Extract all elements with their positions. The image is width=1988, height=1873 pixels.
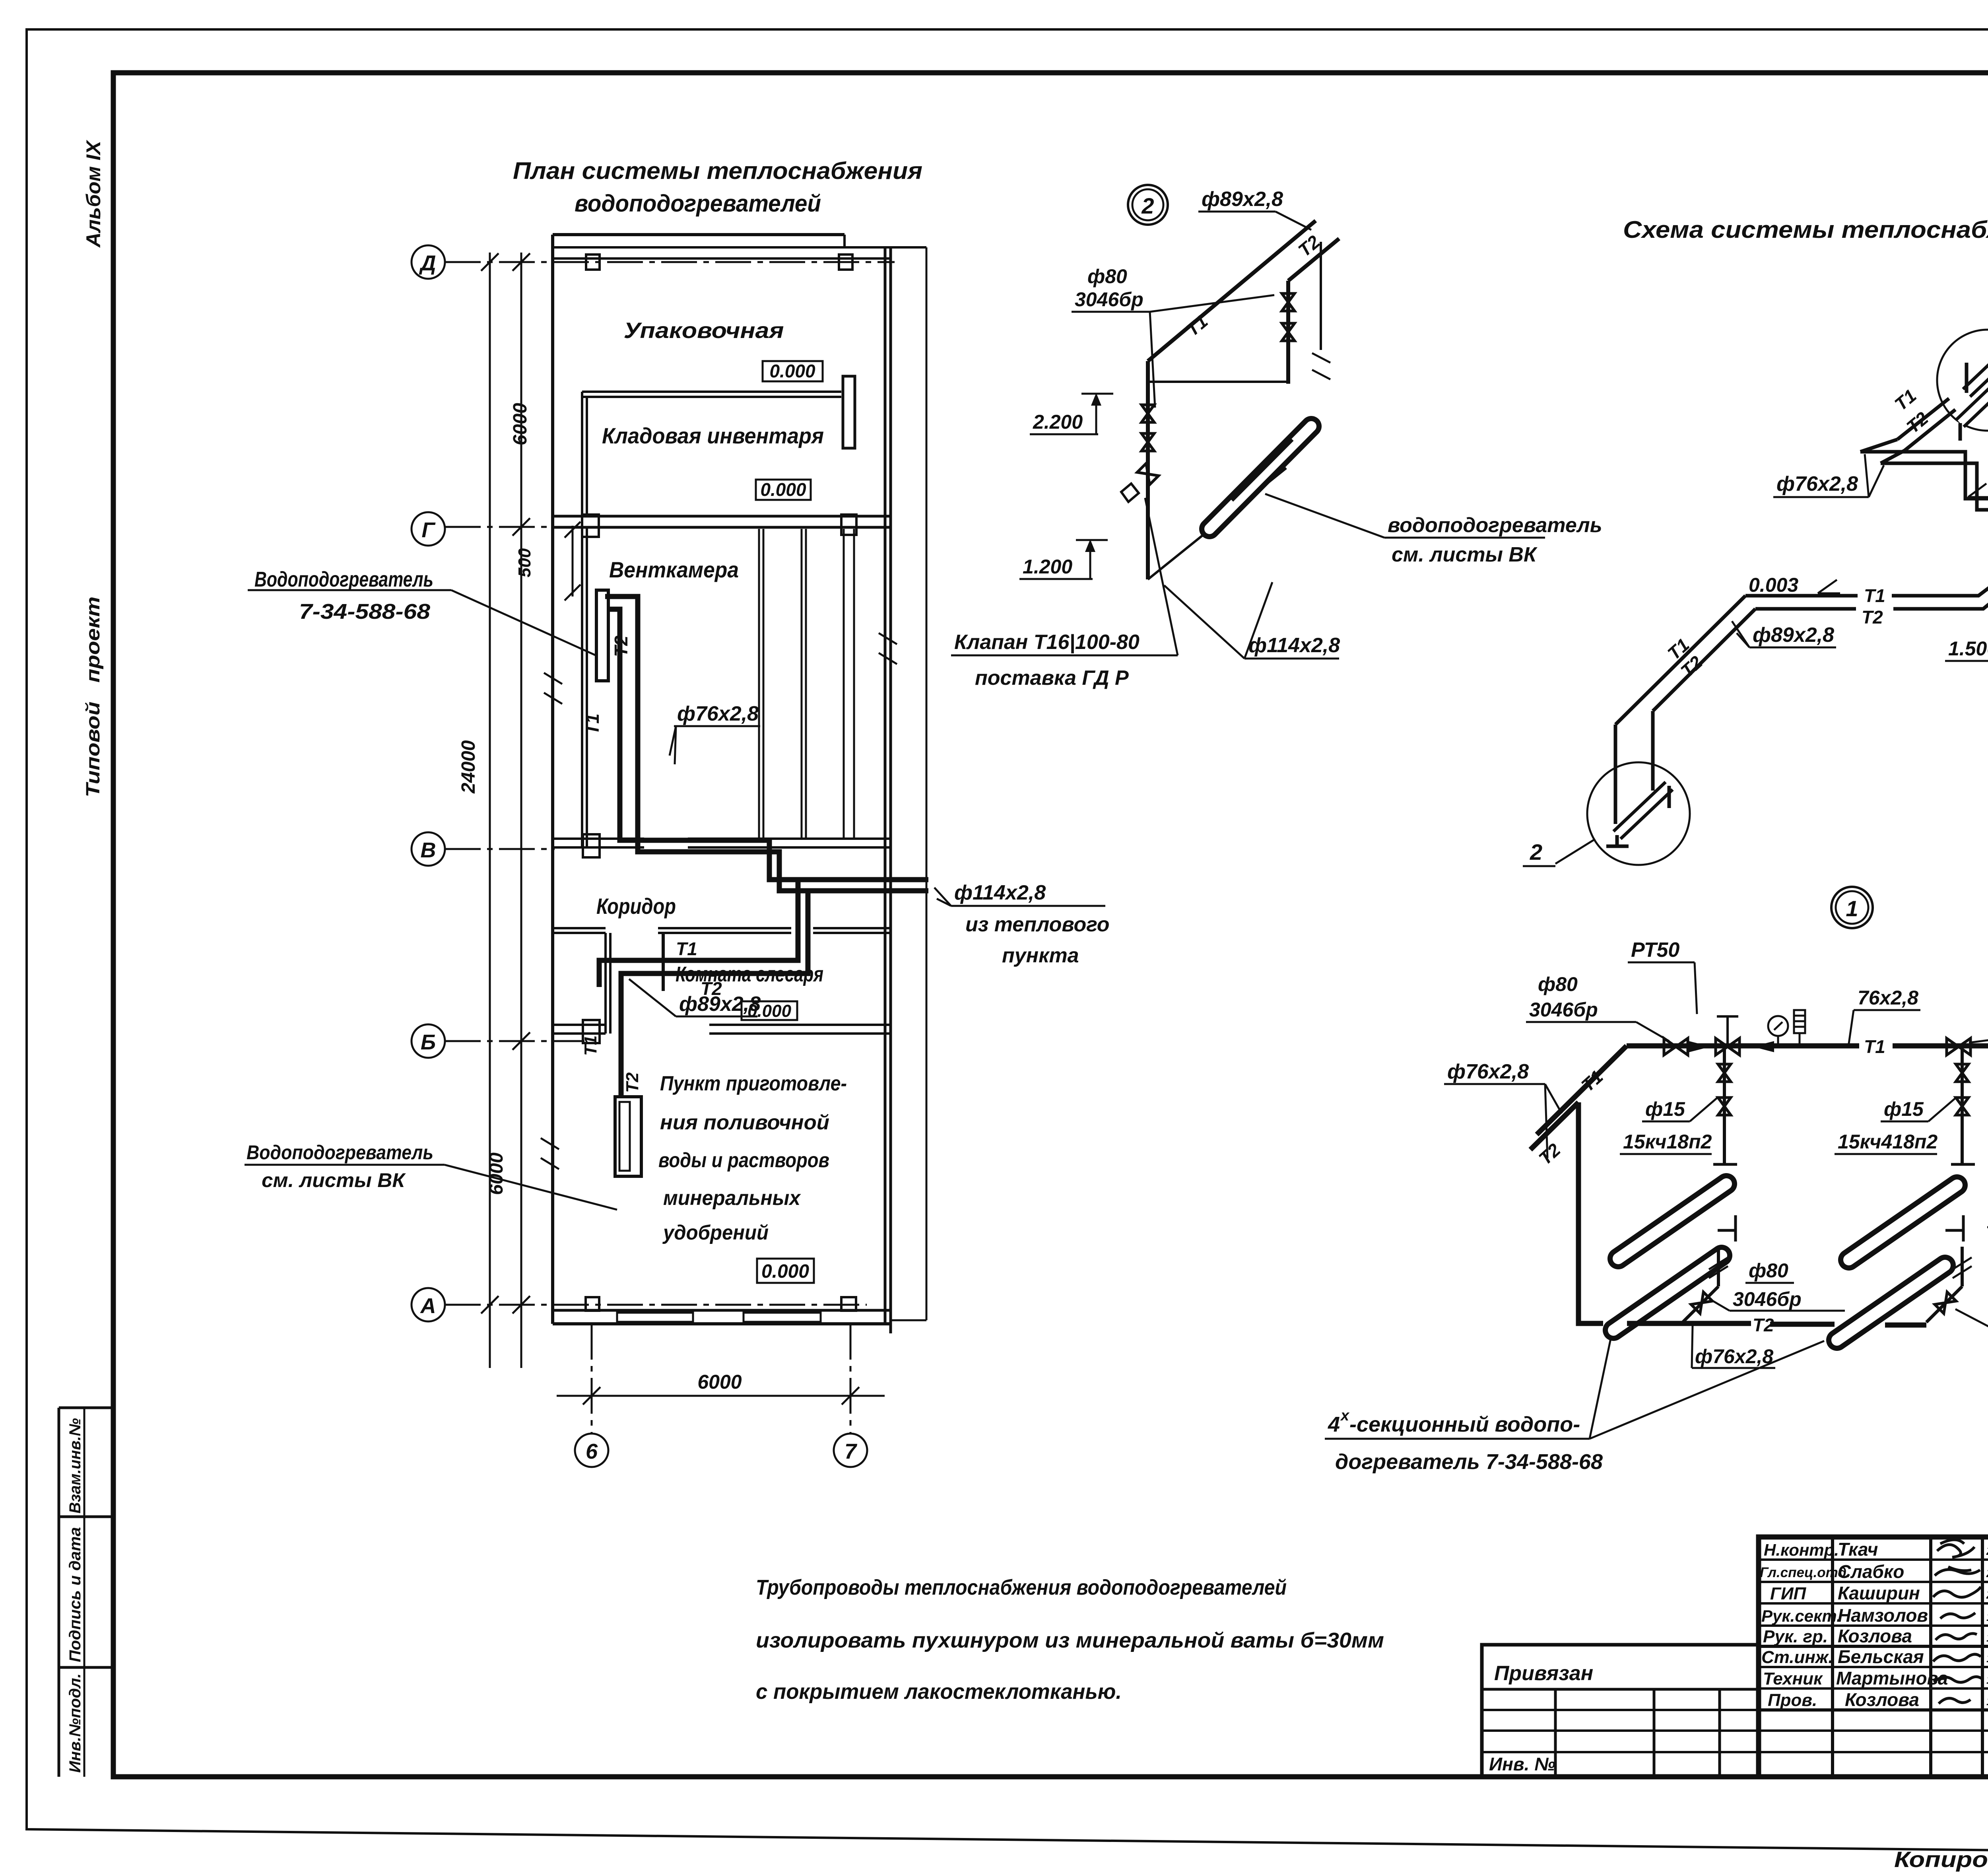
heater bottom edge bbox=[1148, 468, 1286, 579]
слесарь room left wall bbox=[604, 933, 607, 1034]
pipe T1 diagonal bbox=[1148, 221, 1316, 361]
svg-text:20.06.83: 20.06.83 bbox=[1986, 1588, 1988, 1601]
wall axis Г bbox=[553, 515, 891, 518]
svg-text:водоподогреватель: водоподогреватель bbox=[1388, 514, 1602, 537]
valves on T1 header bbox=[1664, 1038, 1688, 1055]
svg-text:ф76х2,8: ф76х2,8 bbox=[1447, 1060, 1529, 1083]
svg-text:Т2: Т2 bbox=[623, 1072, 642, 1093]
svg-text:0.000: 0.000 bbox=[760, 479, 806, 500]
svg-text:РТ50: РТ50 bbox=[1631, 938, 1679, 962]
svg-text:10.05.83: 10.05.83 bbox=[1986, 1652, 1988, 1665]
axis Г circle bbox=[412, 512, 445, 546]
svg-text:2.200: 2.200 bbox=[1033, 411, 1083, 433]
left outer wall bbox=[551, 235, 554, 1324]
svg-text:6000: 6000 bbox=[486, 1152, 507, 1195]
кладовая walls bbox=[582, 391, 841, 393]
bottom wall axis А bbox=[553, 1309, 891, 1312]
svg-text:Мартынова: Мартынова bbox=[1836, 1668, 1948, 1688]
svg-text:ф80: ф80 bbox=[1749, 1259, 1788, 1282]
T1 feed diagonal bbox=[1537, 1046, 1627, 1135]
heater right edge bbox=[1320, 242, 1322, 350]
svg-text:минеральных: минеральных bbox=[663, 1187, 801, 1210]
svg-text:догреватель 7-34-588-68: догреватель 7-34-588-68 bbox=[1335, 1450, 1603, 1474]
svg-text:Козлова: Козлова bbox=[1838, 1626, 1912, 1646]
verticals to compensator 2 bbox=[1614, 725, 1617, 824]
svg-text:15кч418п2: 15кч418п2 bbox=[1838, 1131, 1938, 1153]
svg-text:Привязан: Привязан bbox=[1494, 1662, 1593, 1685]
svg-text:76х2,8: 76х2,8 bbox=[1858, 987, 1918, 1009]
svg-text:А: А bbox=[420, 1294, 436, 1318]
svg-text:ф80: ф80 bbox=[1087, 265, 1127, 288]
svg-text:3046бр: 3046бр bbox=[1075, 288, 1143, 311]
svg-text:4: 4 bbox=[1328, 1413, 1340, 1436]
svg-text:6: 6 bbox=[586, 1440, 598, 1463]
riser T1 corridor bbox=[599, 880, 798, 987]
upper zigzag pair bbox=[1860, 452, 1988, 516]
svg-text:Ст.инж.: Ст.инж. bbox=[1761, 1648, 1833, 1667]
angle valve T16/100-80 with diamond handle bbox=[1137, 463, 1159, 485]
svg-text:Т2: Т2 bbox=[1753, 1315, 1774, 1335]
long T1/T2 horizontals bbox=[1745, 530, 1988, 596]
svg-text:ф114х2,8: ф114х2,8 bbox=[1248, 634, 1340, 657]
svg-text:Пункт приготовле-: Пункт приготовле- bbox=[660, 1072, 847, 1095]
pipe T2 diagonal + branch bbox=[1288, 239, 1339, 281]
T2 return diagonal + drop bbox=[1530, 1102, 1578, 1150]
svg-text:ф15: ф15 bbox=[1645, 1098, 1685, 1120]
svg-text:Копировал Попова: Копировал Попова bbox=[1894, 1847, 1988, 1872]
svg-text:20.06.8: 20.06.8 bbox=[1986, 1567, 1988, 1580]
svg-text:ф114х2,8: ф114х2,8 bbox=[954, 881, 1046, 904]
detail circle 1 bbox=[1831, 887, 1873, 928]
svg-text:Козлова: Козлова bbox=[1845, 1689, 1919, 1710]
T2 bottom header bbox=[1582, 1321, 1603, 1326]
svg-text:Коридор: Коридор bbox=[596, 894, 676, 919]
svg-text:ф89х2,8: ф89х2,8 bbox=[679, 993, 761, 1016]
svg-text:см. листы ВК: см. листы ВК bbox=[262, 1169, 406, 1191]
verticals of signature table bbox=[1831, 1537, 1834, 1777]
svg-text:Подпись и дата: Подпись и дата bbox=[66, 1527, 84, 1662]
svg-text:поставка ГД Р: поставка ГД Р bbox=[975, 666, 1129, 690]
axis А line bbox=[445, 1304, 867, 1306]
svg-text:Г: Г bbox=[421, 518, 436, 542]
right outer wall bbox=[884, 247, 887, 1324]
svg-text:Пров.: Пров. bbox=[1768, 1690, 1817, 1710]
svg-text:см. листы ВК: см. листы ВК bbox=[1392, 543, 1538, 566]
svg-text:ф89х2,8: ф89х2,8 bbox=[1202, 188, 1283, 211]
svg-text:План системы теплоснабжения: План системы теплоснабжения bbox=[513, 157, 922, 184]
svg-text:В: В bbox=[421, 838, 436, 862]
pipe T1 vertical bbox=[1146, 361, 1150, 579]
svg-text:Рук.сект.: Рук.сект. bbox=[1761, 1607, 1841, 1625]
svg-text:Т1: Т1 bbox=[1864, 585, 1885, 606]
svg-text:ф15: ф15 bbox=[1884, 1098, 1924, 1120]
connector with break right bbox=[1962, 1215, 1965, 1242]
svg-text:Ткач: Ткач bbox=[1838, 1539, 1878, 1560]
axis Б line bbox=[445, 1040, 584, 1042]
thermometer sensor bbox=[1794, 1010, 1805, 1033]
svg-text:Альбом IX: Альбом IX bbox=[82, 140, 105, 248]
svg-text:3046бр: 3046бр bbox=[1529, 999, 1598, 1021]
svg-text:ф76х2,8: ф76х2,8 bbox=[1776, 472, 1858, 495]
svg-text:Водоподогреватель: Водоподогреватель bbox=[254, 567, 433, 591]
svg-text:Взам.инв.№: Взам.инв.№ bbox=[66, 1418, 84, 1514]
svg-text:Гл.спец.отд.: Гл.спец.отд. bbox=[1760, 1565, 1850, 1580]
svg-text:Трубопроводы теплоснабжения: Трубопроводы теплоснабжения водоподогрев… bbox=[756, 1576, 1287, 1599]
horizontals left part bbox=[1759, 1558, 1988, 1561]
valves on T1 vertical bbox=[1142, 405, 1154, 422]
svg-text:0.003: 0.003 bbox=[1749, 574, 1798, 596]
svg-text:Слабко: Слабко bbox=[1838, 1561, 1904, 1582]
heater top edge bbox=[1148, 381, 1288, 383]
svg-text:Кладовая инвентаря: Кладовая инвентаря bbox=[602, 423, 824, 448]
heater 2 (нижний водоподогреватель) bbox=[615, 1097, 641, 1176]
svg-text:Т1: Т1 bbox=[676, 938, 697, 959]
svg-text:7-34-588-68: 7-34-588-68 bbox=[299, 600, 430, 624]
building top wall bbox=[553, 233, 845, 236]
svg-text:Рук. гр.: Рук. гр. bbox=[1763, 1627, 1828, 1646]
svg-text:ния поливочной: ния поливочной bbox=[660, 1111, 829, 1134]
svg-text:Т2: Т2 bbox=[1862, 607, 1883, 628]
riser T2 corridor bbox=[621, 891, 808, 1097]
pipes entering compensator bbox=[1897, 398, 1949, 439]
svg-text:15кч18п2: 15кч18п2 bbox=[1623, 1131, 1712, 1153]
svg-text:2: 2 bbox=[1530, 839, 1542, 865]
svg-text:Техник: Техник bbox=[1763, 1669, 1823, 1688]
axis А circle bbox=[412, 1288, 445, 1321]
svg-text:изолировать пухшнуром из ми: изолировать пухшнуром из минеральной ват… bbox=[756, 1628, 1384, 1652]
manometer bbox=[1768, 1016, 1788, 1036]
svg-text:6000: 6000 bbox=[510, 403, 531, 445]
svg-text:Намзолов: Намзолов bbox=[1838, 1605, 1928, 1626]
axis Д line bbox=[445, 261, 895, 263]
svg-text:Клапан Т16|100-80: Клапан Т16|100-80 bbox=[954, 631, 1140, 654]
heater 1 (водоподогреватель венткамеры) bbox=[596, 590, 608, 681]
axis В line bbox=[445, 848, 555, 850]
dimension 500 bbox=[572, 526, 574, 596]
heater return pipe bbox=[1232, 439, 1292, 500]
svg-text:водоподогревателей: водоподогревателей bbox=[575, 190, 821, 217]
svg-text:500: 500 bbox=[515, 548, 534, 577]
svg-text:7: 7 bbox=[845, 1440, 858, 1463]
svg-text:Т1: Т1 bbox=[1864, 1036, 1885, 1057]
signatures squiggles bbox=[1937, 1540, 1974, 1557]
heater coils right bbox=[1849, 1185, 1957, 1260]
svg-text:Венткамера: Венткамера bbox=[609, 557, 739, 582]
svg-text:воды и растворов: воды и растворов bbox=[658, 1149, 829, 1172]
svg-text:6000: 6000 bbox=[697, 1371, 742, 1393]
svg-text:ф76х2,8: ф76х2,8 bbox=[1695, 1345, 1773, 1368]
svg-text:Т1: Т1 bbox=[582, 713, 603, 735]
svg-text:10.05.83: 10.05.83 bbox=[1986, 1673, 1988, 1686]
heater coil bbox=[1209, 426, 1311, 529]
svg-text:Упаковочная: Упаковочная bbox=[624, 318, 784, 343]
svg-text:1.500: 1.500 bbox=[1948, 637, 1988, 660]
connector with break left bbox=[1734, 1215, 1737, 1242]
svg-text:1.200: 1.200 bbox=[1023, 556, 1072, 578]
eaves line right bbox=[926, 247, 928, 1320]
svg-text:24000: 24000 bbox=[458, 740, 479, 794]
svg-text:0.000: 0.000 bbox=[769, 361, 815, 381]
svg-text:удобрений: удобрений bbox=[662, 1221, 769, 1244]
dimension line 6000 segments bbox=[520, 253, 522, 1368]
pipe T1 vent chamber bbox=[608, 609, 928, 880]
svg-text:ГИП: ГИП bbox=[1770, 1584, 1807, 1603]
svg-text:с покрытием лакостеклотканью: с покрытием лакостеклотканью. bbox=[756, 1680, 1122, 1704]
0.000 level boxes bbox=[763, 361, 823, 381]
valves on T2 branch bbox=[1282, 293, 1295, 311]
break mark on left wall bbox=[544, 673, 562, 704]
svg-text:Т2: Т2 bbox=[611, 635, 631, 657]
T1 header bbox=[1627, 1043, 1859, 1049]
right valve on T1 bbox=[1947, 1038, 1971, 1055]
svg-text:Типовой проект: Типовой проект bbox=[83, 596, 104, 797]
svg-text:-секционный водопо-: -секционный водопо- bbox=[1349, 1413, 1580, 1436]
svg-text:ф76х2,8: ф76х2,8 bbox=[677, 702, 759, 725]
dimension line 24000 bbox=[489, 253, 491, 1368]
svg-text:пункта: пункта bbox=[1002, 944, 1079, 967]
svg-text:Бельская: Бельская bbox=[1838, 1646, 1924, 1667]
wall axis Б bbox=[553, 1024, 606, 1026]
drain assembly right bbox=[1961, 1047, 1964, 1163]
svg-text:Т1: Т1 bbox=[581, 1036, 600, 1056]
svg-text:Инв. №: Инв. № bbox=[1489, 1754, 1555, 1774]
svg-text:х: х bbox=[1340, 1407, 1350, 1424]
axis Г line bbox=[445, 526, 584, 528]
svg-text:Инв.№подл.: Инв.№подл. bbox=[66, 1673, 84, 1773]
drain assembly left bbox=[1723, 1047, 1726, 1163]
pilasters axis Д bbox=[586, 255, 600, 270]
svg-text:10.05.83: 10.05.83 bbox=[1986, 1695, 1988, 1708]
svg-text:из теплового: из теплового bbox=[965, 913, 1110, 936]
svg-text:Б: Б bbox=[421, 1030, 436, 1054]
svg-text:2: 2 bbox=[1141, 193, 1154, 218]
detail circle 2 bbox=[1128, 185, 1168, 225]
axis Б circle bbox=[412, 1024, 445, 1058]
diagonals down to compensator 2 bbox=[1615, 596, 1745, 725]
svg-text:ф80: ф80 bbox=[1538, 973, 1578, 995]
svg-text:27.06.83: 27.06.83 bbox=[1986, 1545, 1988, 1558]
heater coils left bbox=[1618, 1184, 1726, 1259]
коридор bottom wall bbox=[553, 927, 606, 929]
svg-text:0.000: 0.000 bbox=[761, 1261, 809, 1282]
svg-text:10.05.83: 10.05.83 bbox=[1986, 1631, 1988, 1644]
svg-text:10.05.83: 10.05.83 bbox=[1986, 1611, 1988, 1624]
svg-text:Д: Д bbox=[419, 251, 436, 275]
svg-text:Схема системы теплоснабжения: Схема системы теплоснабжения водоподогре… bbox=[1623, 216, 1988, 243]
axis Д circle bbox=[412, 245, 445, 279]
axis В circle bbox=[412, 832, 445, 866]
svg-text:Водоподогреватель: Водоподогреватель bbox=[247, 1141, 433, 1164]
shaft partitions bbox=[758, 529, 760, 839]
bottom columns 6 and 7 bbox=[591, 1324, 593, 1434]
Привязан table bbox=[1482, 1645, 1759, 1777]
svg-text:ф89х2,8: ф89х2,8 bbox=[1753, 624, 1834, 647]
svg-text:1: 1 bbox=[1846, 896, 1858, 921]
callout 2 bbox=[1555, 839, 1595, 864]
svg-text:Каширин: Каширин bbox=[1838, 1583, 1920, 1603]
svg-text:Н.контр.: Н.контр. bbox=[1764, 1541, 1839, 1559]
pipe T2 vent chamber bbox=[605, 596, 928, 891]
венткамера walls bbox=[581, 527, 583, 847]
svg-text:3046бр: 3046бр bbox=[1733, 1288, 1802, 1310]
compensator detail circle (узел 1) bbox=[1937, 330, 1988, 431]
left margin stamp cells bbox=[58, 1408, 60, 1777]
compensator 2 circle bbox=[1587, 762, 1690, 865]
